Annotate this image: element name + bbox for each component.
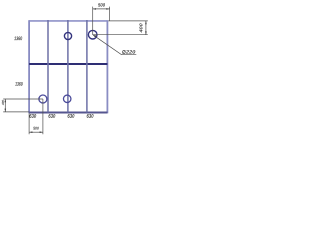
arrowhead 400 left up (5, 99, 7, 102)
panel top edge (29, 20, 107, 22)
dim 500 top: extension line left (through circle) (92, 7, 94, 35)
panel vertical joint 3 (86, 20, 88, 113)
arrowhead 500 top left (93, 8, 96, 10)
arrowhead leader at hole (93, 35, 96, 37)
dim text 400 right (rotated) (139, 23, 142, 32)
dim 500 bottom: extension line right (from circle) (42, 99, 44, 134)
dim 400 right: extension line bottom (93, 34, 148, 36)
dim 400 left: extension line bottom (3, 111, 29, 113)
dim text 500 top (98, 3, 105, 6)
hole circle bottom-middle (63, 95, 71, 103)
bay width label 630 #1 (29, 114, 36, 118)
bay width label 630 #2 (49, 114, 56, 118)
dim 500 bottom: dimension line (29, 131, 43, 133)
panel bottom edge (29, 112, 107, 114)
hole circle top-middle (64, 32, 71, 39)
panel right edge (106, 20, 108, 113)
dim 400 right: dimension line (145, 21, 147, 35)
panel vertical joint 2 (67, 20, 69, 113)
label 1360 upper (14, 36, 22, 40)
panel middle horizontal joint (29, 63, 107, 65)
dim 400 right: extension line top (108, 20, 148, 22)
bay width label 630 #3 (68, 114, 75, 118)
dim 400 left: extension line top (to circle center) (3, 98, 43, 100)
panel left edge (28, 20, 30, 113)
hole circle top-right (88, 30, 97, 39)
panel vertical joint 1 (47, 20, 49, 113)
arrowhead 400 left down (5, 109, 7, 112)
dim 500 top: extension line right (109, 7, 111, 21)
label 1360 lower (15, 82, 23, 86)
dim text 500 bottom (33, 127, 39, 130)
dim 400 left: dimension line (4, 99, 6, 112)
hole circle bottom-left (39, 95, 47, 103)
dim text 400 left (rotated) (2, 100, 4, 105)
dim 500 bottom: extension line left (28, 113, 30, 134)
leader line of hole diameter (93, 35, 136, 55)
bay width label 630 #4 (87, 114, 94, 118)
arrowhead 400 right up (145, 21, 147, 24)
arrowhead 500 bottom left (29, 131, 32, 133)
arrowhead 500 bottom right (40, 131, 43, 133)
dim 500 top: dimension line (93, 8, 110, 10)
arrowhead 400 right down (145, 31, 147, 34)
arrowhead 500 top right (106, 8, 109, 10)
leader text 220 (after diameter sign) (126, 50, 136, 53)
diameter sign of leader text (123, 50, 126, 53)
